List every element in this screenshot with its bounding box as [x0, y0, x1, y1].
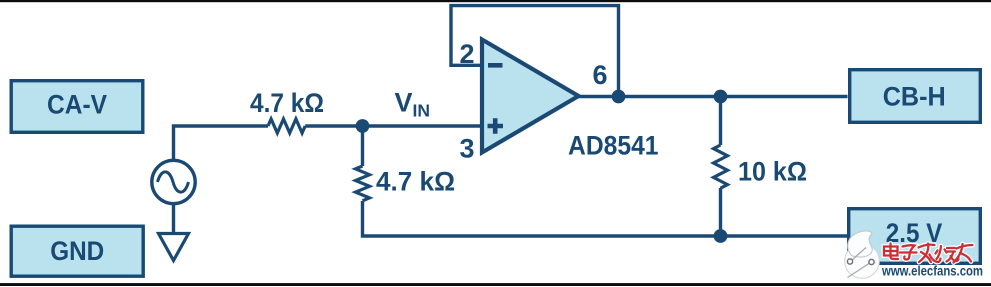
bottom border line — [0, 283, 991, 286]
AC source V1 — [152, 160, 195, 203]
watermark chinese text white halo — [884, 244, 973, 263]
svg-text:CB-H: CB-H — [883, 82, 946, 112]
node VIN junction — [356, 119, 370, 133]
box CB-H — [850, 70, 981, 123]
wire: VIN node down to R2 — [361, 126, 364, 166]
watermark chinese text 电子发烧友 (red strokes) — [884, 244, 973, 263]
wire: source to ground — [172, 204, 175, 233]
minus sign pin2 — [488, 63, 503, 68]
svg-text:GND: GND — [50, 236, 104, 266]
wire: R2 bottom to bottom rail — [363, 201, 848, 236]
watermark logo leaf — [845, 231, 880, 278]
top border line — [0, 0, 991, 2]
box 2.5V — [849, 209, 981, 264]
plus sign pin3 — [488, 118, 504, 134]
svg-text:4.7 kΩ: 4.7 kΩ — [250, 88, 324, 118]
wire: R1 to op-amp pin3 — [305, 124, 482, 127]
svg-text:IN: IN — [413, 101, 431, 121]
svg-text:AD8541: AD8541 — [568, 131, 659, 161]
ground — [159, 234, 189, 261]
node output/feedback — [612, 90, 626, 104]
svg-text:3: 3 — [460, 134, 475, 164]
sine wave — [158, 172, 189, 192]
svg-text:CA-V: CA-V — [47, 89, 107, 119]
wire: R3 to bottom rail — [719, 188, 722, 236]
svg-text:www.elecfans.com: www.elecfans.com — [881, 264, 983, 279]
wire: source corner to R1 — [174, 126, 269, 159]
feedback wire loop — [451, 6, 619, 97]
resistor R1 4.7 kOhm horizontal — [268, 119, 305, 133]
box CA-V — [11, 81, 143, 133]
svg-text:6: 6 — [593, 60, 608, 90]
svg-text:10 kΩ: 10 kΩ — [738, 157, 807, 187]
op-amp U1 AD8541 — [482, 40, 579, 153]
node R3 top — [714, 90, 728, 104]
resistor R2 4.7 kOhm vertical — [356, 166, 370, 201]
node bottom rail — [714, 229, 728, 243]
resistor R3 10 kOhm vertical — [714, 145, 728, 188]
svg-text:V: V — [395, 88, 413, 118]
wire: node to R3 — [719, 97, 722, 146]
output wire — [579, 95, 848, 98]
box GND — [11, 226, 143, 276]
svg-text:4.7 kΩ: 4.7 kΩ — [376, 167, 455, 197]
